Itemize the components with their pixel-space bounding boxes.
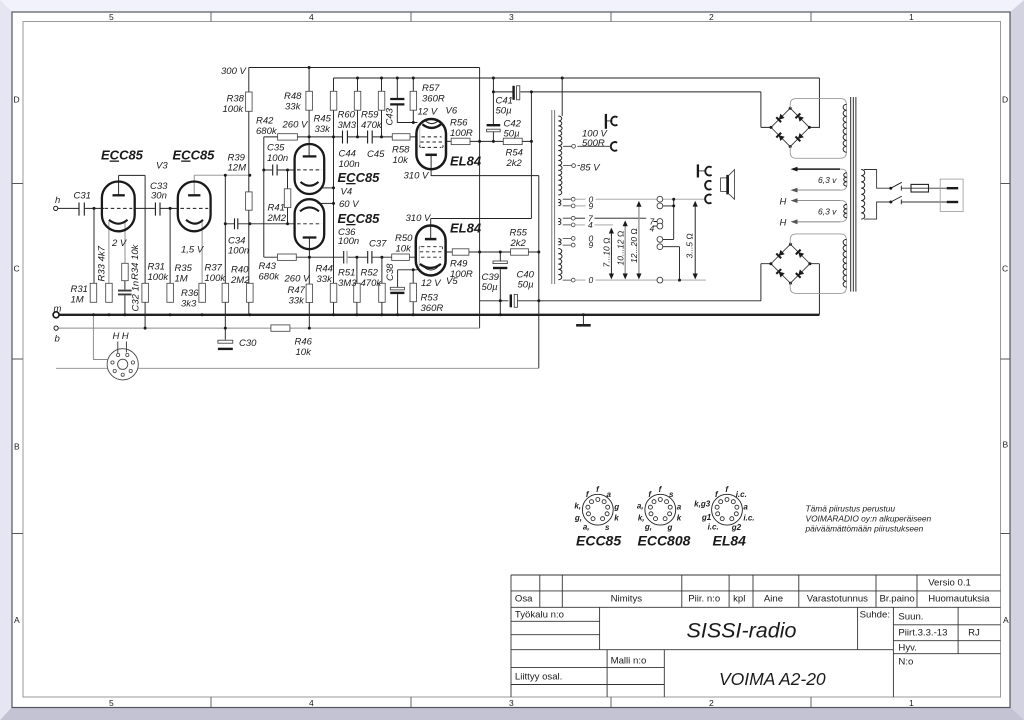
resistor R36 3k3 <box>199 283 206 302</box>
svg-text:2 V: 2 V <box>111 238 128 249</box>
capacitor C34 100n <box>235 218 238 229</box>
svg-text:R44: R44 <box>316 264 333 275</box>
H pin leads <box>118 342 127 354</box>
V5 internal cathode-g3 link <box>418 247 420 267</box>
svg-text:C43: C43 <box>385 107 396 125</box>
resistor R56 100R <box>451 138 470 144</box>
tube V3a ECC85 glass <box>102 182 135 232</box>
capacitor C45 <box>368 131 373 144</box>
wire R49 row V5 g2 <box>446 251 539 253</box>
svg-text:B: B <box>14 442 20 452</box>
mains switch 2 <box>889 196 946 204</box>
svg-text:ECC85: ECC85 <box>576 533 621 549</box>
svg-text:0: 0 <box>589 275 594 285</box>
svg-text:R51: R51 <box>338 268 355 279</box>
svg-text:i.c.: i.c. <box>708 523 719 532</box>
input terminal b <box>54 326 58 330</box>
resistor R59 470k <box>378 91 385 110</box>
svg-text:D: D <box>14 95 20 105</box>
svg-text:i.c.: i.c. <box>736 490 747 499</box>
V4a grid <box>297 169 322 171</box>
svg-text:10k: 10k <box>393 155 410 166</box>
svg-text:H: H <box>113 331 120 342</box>
svg-text:2: 2 <box>709 698 714 708</box>
svg-text:VOIMA A2-20: VOIMA A2-20 <box>719 669 826 689</box>
output transformer primary winding <box>558 116 562 195</box>
resistor R46 10k <box>271 325 290 331</box>
wire R59 column <box>381 78 383 137</box>
svg-text:b: b <box>55 334 60 345</box>
svg-text:9: 9 <box>589 201 594 211</box>
svg-text:EL84: EL84 <box>450 154 482 169</box>
resistor R41 2M2 <box>284 189 291 208</box>
wire 310V second rail y78 <box>334 77 820 79</box>
svg-text:360R: 360R <box>422 94 445 105</box>
note text <box>805 504 932 534</box>
svg-text:33k: 33k <box>317 274 334 285</box>
svg-text:33k: 33k <box>315 124 332 135</box>
resistor R48 33k <box>306 91 313 110</box>
wire V5 anode up to row218.5 <box>430 219 432 240</box>
V3a grid <box>105 207 133 209</box>
svg-text:V3: V3 <box>156 161 168 172</box>
wire C34 row <box>225 223 294 225</box>
speaker pin bar <box>698 164 706 177</box>
svg-text:C30: C30 <box>239 338 257 349</box>
svg-text:C45: C45 <box>367 149 385 160</box>
svg-text:6,3 v: 6,3 v <box>818 175 837 185</box>
title block texts <box>515 578 990 683</box>
svg-text:100R: 100R <box>450 269 473 280</box>
svg-text:C: C <box>1002 264 1008 274</box>
wire vertical x225.3 anode branch through C34 node to R37 and b rail <box>224 175 226 340</box>
svg-text:60 V: 60 V <box>339 199 360 210</box>
svg-text:ECC85: ECC85 <box>338 211 381 226</box>
svg-text:85 V: 85 V <box>580 163 601 174</box>
wire V4a anode column with R48 <box>308 68 310 157</box>
wire 300V top rail <box>249 67 480 69</box>
resistor R53 360R <box>410 283 417 302</box>
6.3v winding loop 1 <box>795 169 847 190</box>
wire R57 column <box>412 78 414 123</box>
resistor R33 4k7 <box>106 283 113 302</box>
svg-text:5: 5 <box>109 12 114 22</box>
rectifier bridge upper <box>770 107 811 148</box>
wire C35 row <box>264 169 295 171</box>
wire V3a to C33 to V3b grid <box>134 207 179 209</box>
svg-text:H: H <box>780 218 787 229</box>
wire vertical x538.8 down to heater row <box>538 176 540 369</box>
wire rail78 right corner down to upper bridge right <box>809 78 819 128</box>
svg-text:s: s <box>605 523 610 532</box>
svg-text:12M: 12M <box>228 163 247 174</box>
svg-text:3M3: 3M3 <box>338 120 357 131</box>
svg-text:4: 4 <box>650 223 655 233</box>
svg-text:g,: g, <box>574 513 582 522</box>
svg-text:30n: 30n <box>151 191 167 202</box>
svg-text:k: k <box>677 513 682 522</box>
resistor R49 100R <box>452 249 469 255</box>
V5 anode <box>425 238 437 241</box>
wire m bus corner up to lower bridge right <box>810 264 820 315</box>
svg-text:4: 4 <box>309 12 314 22</box>
svg-text:Malli n:o: Malli n:o <box>611 656 647 667</box>
svg-text:RJ: RJ <box>968 628 980 639</box>
svg-text:Br.paino: Br.paino <box>880 594 915 605</box>
svg-text:100n: 100n <box>228 246 249 257</box>
svg-text:Työkalu n:o: Työkalu n:o <box>515 610 564 621</box>
svg-text:C: C <box>14 264 20 274</box>
svg-text:680k: 680k <box>259 272 281 283</box>
V5 g3 end ticks <box>419 247 443 249</box>
HV winding loop lower (gray) <box>790 234 846 294</box>
svg-text:a: a <box>743 502 748 511</box>
capacitor C30 <box>218 340 233 349</box>
svg-text:1: 1 <box>909 698 914 708</box>
svg-text:2M2: 2M2 <box>230 275 250 286</box>
resistor R38 100k <box>246 92 253 111</box>
wire C40 row <box>480 300 761 302</box>
wire vertical x531.4 C41 to V5 anode row <box>530 92 532 219</box>
svg-text:1M: 1M <box>175 274 188 285</box>
svg-text:680k: 680k <box>256 126 278 137</box>
svg-text:9: 9 <box>589 240 594 250</box>
wire C40 row corner up to lower bridge left <box>761 264 771 301</box>
svg-text:360R: 360R <box>421 303 444 314</box>
svg-text:EL84: EL84 <box>450 221 482 236</box>
svg-text:SISSI-radio: SISSI-radio <box>687 619 797 643</box>
svg-text:Suhde:: Suhde: <box>860 610 890 621</box>
wire 260V row (R42 C44 C45 R58 to V6 g1) <box>264 136 417 138</box>
resistor R31 1M <box>90 283 97 302</box>
wire V5 anode row to x531.4 <box>431 218 532 220</box>
resistor R37 100k <box>222 283 229 302</box>
svg-text:10k: 10k <box>396 244 413 255</box>
tube V4b ECC85 glass (inverted) <box>295 199 325 249</box>
svg-text:100R: 100R <box>450 128 473 139</box>
svg-text:50µ: 50µ <box>482 282 499 293</box>
V5 cathode arcs <box>420 264 441 268</box>
resistor R60 3M3 <box>354 91 361 110</box>
tap line 4 (gray) <box>575 224 613 226</box>
svg-text:V4: V4 <box>341 187 353 198</box>
wire socket feed from bus (gray) <box>93 315 107 360</box>
resistor R52 470k <box>379 283 386 302</box>
svg-text:g: g <box>613 502 619 511</box>
wire grid leak R31 drop <box>93 208 95 283</box>
svg-text:EL84: EL84 <box>713 533 747 549</box>
svg-text:100k: 100k <box>148 272 170 283</box>
wire grid leak R35 drop <box>169 208 171 283</box>
wire V6 cathode row <box>397 122 417 124</box>
wire R45 column x333.5 rail78 to R44 to bus <box>333 78 335 315</box>
wire R47 column <box>308 257 310 328</box>
V4b grid <box>297 223 322 225</box>
svg-text:2: 2 <box>709 12 714 22</box>
wire tube V3b anode line (gray) <box>194 175 250 195</box>
zone tick marks right <box>1001 184 1011 534</box>
wire vertical C42 branch <box>492 78 494 141</box>
resistor R51 3M3 <box>354 283 361 302</box>
capacitor C36 100n <box>343 251 345 264</box>
svg-text:300 V: 300 V <box>221 66 247 77</box>
svg-text:Suun.: Suun. <box>898 612 923 623</box>
heater arrow 1 (black) <box>797 168 841 170</box>
svg-text:R58: R58 <box>392 145 410 156</box>
V3b grid <box>180 207 208 209</box>
zone tick marks left <box>12 184 23 534</box>
capacitor C38 (electrolytic) <box>390 287 404 293</box>
svg-text:päiväämättömään piirustukseen: päiväämättömään piirustukseen <box>805 524 924 534</box>
svg-text:A: A <box>1003 615 1009 625</box>
svg-text:6,3 v: 6,3 v <box>818 207 837 217</box>
svg-text:2k2: 2k2 <box>510 238 527 249</box>
svg-text:3: 3 <box>509 12 514 22</box>
svg-text:s: s <box>669 490 674 499</box>
wire V5 cathode row <box>398 269 418 271</box>
svg-text:R35: R35 <box>175 263 193 274</box>
svg-text:470k: 470k <box>361 278 383 289</box>
svg-text:3: 3 <box>509 698 514 708</box>
svg-text:k: k <box>614 513 619 522</box>
HV winding upper bumps <box>843 104 847 152</box>
tube V6 EL84 glass (inverted) <box>416 119 446 169</box>
svg-text:50µ: 50µ <box>518 280 535 291</box>
svg-text:500R: 500R <box>582 138 605 149</box>
svg-text:310 V: 310 V <box>406 213 432 224</box>
wire V3b cathode lead (gray) <box>201 222 203 284</box>
resistor R42 680k <box>278 134 298 140</box>
svg-text:R41: R41 <box>268 203 285 214</box>
svg-text:R48: R48 <box>284 91 302 102</box>
svg-text:33k: 33k <box>285 102 302 113</box>
svg-text:Piirt.3.3.-13: Piirt.3.3.-13 <box>898 628 947 639</box>
wire C38 column <box>397 270 399 315</box>
svg-text:g1: g1 <box>701 513 712 522</box>
title block grid lines <box>511 575 1001 697</box>
zone tick marks bottom <box>211 697 811 708</box>
svg-text:N:o: N:o <box>898 657 913 668</box>
svg-text:4: 4 <box>588 220 593 230</box>
svg-text:R56: R56 <box>450 118 468 129</box>
wire output transformer primary top lead <box>561 78 563 116</box>
V6 internal cathode-g3 link <box>419 126 421 147</box>
output transformer core <box>552 110 555 284</box>
V6 g3 end ticks <box>420 145 444 147</box>
svg-text:260 V: 260 V <box>284 274 311 285</box>
svg-text:B: B <box>1003 440 1009 450</box>
svg-text:100k: 100k <box>223 104 245 115</box>
svg-text:C35: C35 <box>267 143 285 154</box>
svg-text:R55: R55 <box>510 228 528 239</box>
svg-text:Osa: Osa <box>515 594 533 605</box>
wire V6 anode 310V line <box>431 155 539 176</box>
resistor R58 10k <box>392 134 410 140</box>
svg-text:ECC85: ECC85 <box>173 148 216 163</box>
wire B+ row corner down to upper bridge left <box>761 92 771 128</box>
svg-text:R50: R50 <box>395 233 413 244</box>
ground bar <box>576 324 591 327</box>
svg-text:2k2: 2k2 <box>506 158 523 169</box>
wire C43 column <box>396 78 398 123</box>
svg-text:100n: 100n <box>339 159 360 170</box>
V6 cathode arcs <box>422 124 441 128</box>
wire R53 column <box>412 270 414 315</box>
svg-text:C32 1n: C32 1n <box>130 281 141 312</box>
svg-text:C38: C38 <box>385 263 396 281</box>
power transformer core <box>851 97 856 292</box>
V6 anode <box>425 154 437 157</box>
capacitor C44 100n <box>343 131 348 144</box>
svg-text:7...10 Ω: 7...10 Ω <box>602 237 612 268</box>
tap line 7 (black) <box>575 217 646 219</box>
input terminal m <box>53 312 59 318</box>
V4a cathode <box>301 182 319 186</box>
svg-text:a: a <box>677 502 682 511</box>
HV winding lower bumps <box>843 239 847 287</box>
svg-text:Liittyy osal.: Liittyy osal. <box>515 672 562 683</box>
svg-text:C37: C37 <box>369 239 387 250</box>
svg-text:Huomautuksia: Huomautuksia <box>928 594 990 605</box>
capacitor C33 30n <box>155 203 160 216</box>
wire V4 upper cathode link <box>323 187 334 189</box>
svg-text:g,: g, <box>644 523 652 532</box>
svg-text:Aine: Aine <box>764 594 783 605</box>
resistor R34 10k <box>122 263 129 280</box>
svg-text:R40: R40 <box>231 265 249 276</box>
svg-text:4: 4 <box>309 698 314 708</box>
zone tick marks top <box>211 12 811 22</box>
capacitor C32 1n <box>118 291 132 295</box>
V5 grids g3 g2 g1 <box>421 246 441 248</box>
wire vertical x248.8 R38-R39-R40 column <box>248 68 250 315</box>
capacitor C40 50u (electrolytic horizontal) <box>511 294 518 307</box>
resistor R39 12M <box>246 192 253 210</box>
resistor R50 10k <box>392 254 410 260</box>
input terminal h <box>54 206 58 210</box>
svg-text:R46: R46 <box>295 337 313 348</box>
tube V4a ECC85 glass <box>295 144 325 194</box>
svg-text:R37: R37 <box>205 263 223 274</box>
svg-text:R36: R36 <box>181 288 199 299</box>
svg-text:100n: 100n <box>338 236 359 247</box>
speaker jack arcs <box>705 167 711 176</box>
resistor R31 100k <box>142 283 149 302</box>
svg-text:k,: k, <box>638 513 645 522</box>
svg-text:H: H <box>122 331 129 342</box>
svg-text:470k: 470k <box>361 120 383 131</box>
svg-text:Tämä piirustus perustuu: Tämä piirustus perustuu <box>806 504 896 514</box>
tap line 9 <box>575 205 585 207</box>
svg-text:Piir. n:o: Piir. n:o <box>688 594 720 605</box>
wire m bus (thick) <box>56 314 819 316</box>
svg-text:R53: R53 <box>421 293 439 304</box>
svg-text:3k3: 3k3 <box>181 299 197 310</box>
svg-text:Nimitys: Nimitys <box>611 594 643 605</box>
resistor R55 2k2 <box>511 249 529 255</box>
85V tap lead <box>578 165 581 167</box>
capacitor C37 <box>368 251 372 264</box>
wire R51 column <box>356 257 358 315</box>
svg-text:VOIMARADIO oy:n alkuperäiseen: VOIMARADIO oy:n alkuperäiseen <box>806 514 932 524</box>
svg-text:kpl: kpl <box>733 594 745 605</box>
resistor R44 33k <box>330 283 337 302</box>
resistor R35 1M <box>167 283 174 302</box>
capacitor C43 <box>390 99 404 104</box>
capacitor C41 50u (electrolytic horizontal) <box>514 86 520 100</box>
speaker icon <box>721 170 735 200</box>
svg-text:12...20 Ω: 12...20 Ω <box>629 228 639 263</box>
capacitor C35 100n <box>273 165 277 176</box>
wire V4 lower cathode link <box>318 202 334 204</box>
svg-text:50µ: 50µ <box>504 129 521 140</box>
speaker connector circles <box>657 196 663 283</box>
tube V5 EL84 glass <box>416 226 446 276</box>
svg-text:a,: a, <box>637 502 644 511</box>
mains winding bumps <box>861 170 865 220</box>
wire vertical left drop x263.8 (R42 end to R43 end) <box>263 137 265 257</box>
wire C39 column <box>499 252 501 315</box>
100V 500R tap lead <box>578 145 612 147</box>
svg-text:1,5 V: 1,5 V <box>181 245 205 256</box>
tube socket diagram EL84 <box>694 485 754 532</box>
wire V4b anode drop to R43 node <box>308 238 310 258</box>
svg-text:R47: R47 <box>288 285 306 296</box>
tube socket diagram ECC85 <box>574 485 619 532</box>
svg-text:R49: R49 <box>450 259 468 270</box>
V4b cathode (top) <box>300 207 319 211</box>
svg-text:Versio 0.1: Versio 0.1 <box>928 578 971 589</box>
svg-text:R31: R31 <box>148 262 165 273</box>
svg-text:1M: 1M <box>71 295 84 306</box>
svg-text:g: g <box>667 523 673 532</box>
wire V3a cathode leads (gray) <box>109 222 125 284</box>
6.3v winding 2 bumps <box>844 204 847 217</box>
wire b rail (gray) <box>58 327 480 329</box>
svg-text:a,: a, <box>583 523 590 532</box>
svg-text:3...5 Ω: 3...5 Ω <box>684 233 694 259</box>
wire R56 row V6 g2 to R54 <box>446 140 532 142</box>
svg-text:R60: R60 <box>338 110 356 121</box>
V3b cathode <box>186 220 203 224</box>
tap line 0 bottom (gray) <box>575 279 706 281</box>
svg-text:R38: R38 <box>227 94 245 105</box>
output transformer taps <box>563 144 576 282</box>
svg-text:R34 10k: R34 10k <box>130 243 141 280</box>
wire heater line from terminal to riser (gray) <box>56 367 539 369</box>
impedance arrow 7-10 ohm <box>609 228 614 280</box>
svg-text:310 V: 310 V <box>404 171 430 182</box>
svg-text:R43: R43 <box>259 261 277 272</box>
svg-text:5: 5 <box>109 698 114 708</box>
svg-text:R57: R57 <box>422 83 440 94</box>
connector link wires <box>654 199 680 280</box>
wire R43/C36/C37/R50 row <box>264 256 416 258</box>
resistor R47 33k <box>306 284 313 302</box>
svg-text:R59: R59 <box>361 110 379 121</box>
resistor R45 33k <box>330 91 337 110</box>
svg-text:C44: C44 <box>339 149 356 160</box>
wire vertical R41 branch <box>287 170 289 224</box>
V4a anode <box>303 155 317 157</box>
V4b anode (bottom) <box>303 236 317 238</box>
svg-text:R52: R52 <box>361 268 379 279</box>
svg-text:A: A <box>14 615 20 625</box>
V3b anode <box>188 194 200 196</box>
svg-text:k,g3: k,g3 <box>694 500 711 509</box>
svg-text:260 V: 260 V <box>282 120 309 131</box>
wire R60 column <box>357 78 359 137</box>
